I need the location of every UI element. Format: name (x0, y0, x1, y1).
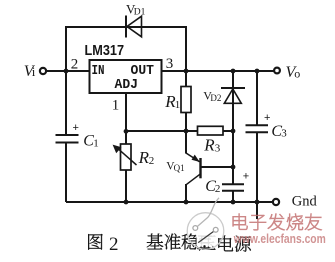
svg-text:2: 2 (149, 155, 155, 167)
svg-text:R: R (203, 136, 215, 155)
watermark logo small circle left (193, 226, 198, 231)
resistor R1 (181, 87, 191, 113)
node junction 7 (231, 129, 236, 134)
transistor VQ1 (199, 158, 201, 178)
node junction 8 (231, 165, 236, 170)
svg-text:3: 3 (281, 128, 287, 140)
wire left vertical input branch (65, 26, 67, 135)
node junction 4 (255, 69, 260, 74)
resistor R3 (198, 126, 224, 135)
svg-text:3: 3 (166, 56, 174, 72)
svg-text:LM317: LM317 (85, 42, 125, 59)
wire top-right corner down to output row (185, 26, 187, 71)
op-amp U1 LM317 regulator box (90, 60, 162, 93)
wire VD2 to base row and C2 (232, 131, 234, 184)
svg-text:1: 1 (93, 138, 99, 150)
wire VQ1 base row (201, 166, 233, 168)
node junction 1 (64, 69, 69, 74)
svg-text:3: 3 (215, 142, 221, 154)
svg-text:Q1: Q1 (174, 163, 185, 173)
caption 图2 基准稳压电源 (88, 233, 251, 255)
svg-text:o: o (294, 66, 300, 80)
wire C2 bottom stub (232, 191, 234, 202)
wire left vertical below C1 (65, 143, 67, 203)
svg-text:Gnd: Gnd (292, 193, 318, 209)
diode VD2 (221, 87, 245, 89)
svg-text:+: + (264, 112, 270, 124)
svg-text:2: 2 (109, 234, 119, 255)
svg-text:1: 1 (175, 99, 181, 111)
watermark logo slash (198, 232, 213, 243)
node junction 3 (231, 69, 236, 74)
wire VQ1 collector stub (185, 131, 187, 154)
svg-text:D1: D1 (134, 7, 146, 17)
wire Vi input row (47, 70, 92, 72)
svg-text:+: + (243, 171, 249, 183)
wire bottom ground rail (66, 201, 272, 203)
node junction 12 (255, 200, 260, 205)
wire ADJ pin vertical (125, 93, 127, 144)
wire R2 bottom to rail (125, 170, 127, 202)
watermark logo white patch over caption (197, 232, 216, 247)
svg-text:2: 2 (215, 183, 221, 195)
wire C3 branch top (256, 71, 258, 125)
svg-text:IN: IN (92, 63, 105, 79)
terminal Vo (274, 68, 280, 74)
svg-text:i: i (32, 64, 36, 79)
resistor R2 (adjustable) (121, 144, 132, 170)
watermark logo small circle right (213, 227, 218, 232)
svg-text:D2: D2 (210, 93, 221, 103)
svg-text:1: 1 (112, 98, 120, 114)
node junction 6 (184, 129, 189, 134)
wire C3 bottom to rail and stub below (256, 132, 258, 219)
capacitor C2 (222, 183, 244, 185)
svg-text:R: R (138, 148, 150, 167)
svg-text:www.elecfans.com: www.elecfans.com (233, 231, 326, 246)
wire R3 right to VD2 line (223, 130, 234, 132)
wire VQ1 emitter stub (185, 184, 187, 202)
node junction 9 (124, 200, 129, 205)
watermark logo circle (187, 213, 224, 250)
svg-text:ADJ: ADJ (115, 77, 139, 93)
node junction 5 (124, 129, 129, 134)
svg-text:+: + (73, 122, 79, 134)
svg-text:2: 2 (71, 56, 79, 72)
watermark logo tail (198, 198, 219, 227)
wire VD2 branch vertical (232, 71, 234, 132)
capacitor C1 (56, 134, 79, 136)
wire R1 top stub (185, 71, 187, 87)
capacitor C3 (246, 124, 269, 126)
wire R1 bottom stub (185, 113, 187, 132)
node junction 10 (184, 200, 189, 205)
diode VD1 (125, 16, 127, 38)
terminal Gnd (273, 199, 279, 205)
terminal Vi (40, 68, 46, 74)
node junction 11 (231, 200, 236, 205)
wire top rail (66, 26, 187, 28)
watermark remnant strokes of 压 (198, 247, 211, 249)
wire output row (162, 70, 274, 72)
node junction 2 (184, 69, 189, 74)
watermark text 电子发烧友 (233, 214, 322, 231)
wire ADJ row to R1/R3 (126, 130, 198, 132)
